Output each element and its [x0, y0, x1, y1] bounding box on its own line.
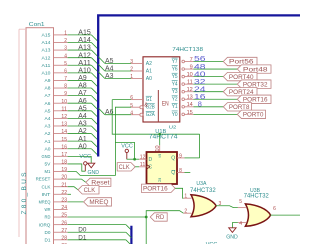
- global label PORT16 (to U3A): [142, 184, 176, 192]
- svg-text:PORT0: PORT0: [243, 113, 264, 119]
- svg-text:28: 28: [61, 235, 67, 241]
- U1B internal labels: [147, 155, 176, 183]
- svg-text:A15: A15: [42, 33, 51, 38]
- wire G1/Q rail with preset tap: [112, 100, 199, 158]
- svg-text:A0: A0: [146, 76, 152, 82]
- Con1 pin 29 (D2): [45, 243, 68, 244]
- U2 pin 10 output Y5: [172, 72, 194, 80]
- svg-text:15: 15: [187, 110, 193, 116]
- svg-text:A1: A1: [146, 69, 152, 75]
- wire PORT8 net 8: [194, 100, 224, 109]
- power symbol VCC (connector): [79, 154, 91, 171]
- U3A pin 3 output wire: [216, 201, 238, 207]
- svg-text:6: 6: [130, 95, 133, 101]
- svg-text:13: 13: [61, 122, 67, 128]
- svg-text:14: 14: [187, 102, 193, 108]
- wire A5 with net label and bus entry: [68, 103, 99, 117]
- Con1 pin 6 (A10): [42, 68, 68, 75]
- bus data vertical bottom: [130, 226, 132, 244]
- ground symbol GND (U3B): [226, 228, 238, 241]
- wire A4 with net label and bus entry: [68, 111, 99, 125]
- U2 pin 7 output Y7: [172, 57, 194, 65]
- svg-text:5V: 5V: [45, 162, 52, 167]
- svg-text:4: 4: [64, 53, 67, 59]
- svg-text:A7: A7: [45, 93, 51, 98]
- svg-text:74HCT32: 74HCT32: [190, 187, 216, 194]
- svg-text:12: 12: [187, 87, 193, 93]
- svg-text:15: 15: [61, 137, 67, 143]
- wire PORT40 net 40: [194, 69, 224, 78]
- U1B pin 9 Q output: [177, 153, 185, 159]
- svg-text:WR: WR: [45, 207, 51, 212]
- svg-text:6: 6: [64, 68, 67, 74]
- wire RESET to Reset label: [68, 179, 86, 182]
- svg-text:1: 1: [64, 31, 67, 37]
- U2 pin 11 output Y4: [172, 80, 194, 88]
- svg-text:12: 12: [61, 114, 67, 120]
- svg-text:2: 2: [130, 67, 133, 73]
- svg-text:2: 2: [184, 209, 187, 215]
- svg-text:16: 16: [61, 144, 67, 150]
- U2 pin 5 input G2B (inverted): [130, 103, 155, 111]
- global label Port56: [223, 57, 257, 65]
- svg-text:11: 11: [61, 106, 67, 112]
- svg-text:3: 3: [130, 59, 133, 65]
- Con1 pin 14 (A2): [45, 129, 68, 136]
- Con1 pin 21 (CLK): [42, 182, 68, 189]
- svg-text:Y0: Y0: [172, 112, 178, 118]
- Con1 pin 9 (A7): [45, 91, 68, 98]
- svg-text:MREQ: MREQ: [39, 199, 51, 204]
- svg-text:GND: GND: [226, 235, 238, 241]
- Con1 pin 4 (A12): [42, 53, 68, 60]
- svg-text:D: D: [149, 157, 153, 163]
- svg-text:7: 7: [64, 76, 67, 82]
- junction RD node: [145, 216, 148, 219]
- global label PORT16: [237, 95, 271, 103]
- svg-text:A11: A11: [42, 63, 51, 68]
- svg-text:8: 8: [198, 100, 202, 109]
- svg-text:Q: Q: [171, 170, 175, 176]
- global label CLK (connector): [78, 186, 99, 194]
- svg-text:Y3: Y3: [172, 89, 178, 95]
- svg-text:A1: A1: [45, 139, 51, 144]
- Con1 pin 2 (A14): [42, 38, 68, 45]
- Con1 pin 28 (D1): [45, 235, 68, 242]
- U1B pin 12 D input: [139, 155, 147, 161]
- Con1 pin 3 (A13): [42, 46, 68, 53]
- wire RD up to OR gate U3A pin2: [146, 211, 183, 217]
- wire G2B branch to VCC/D node: [115, 143, 134, 160]
- svg-text:A2: A2: [146, 61, 152, 67]
- svg-text:8: 8: [179, 168, 182, 174]
- Con1 pin 18 (5V): [45, 160, 68, 167]
- wire A0 with net label and bus entry: [68, 141, 99, 155]
- wire A2 with net label and bus entry: [68, 126, 99, 140]
- svg-text:Y5: Y5: [172, 74, 178, 80]
- svg-text:D0: D0: [78, 228, 87, 234]
- U2 pin 15 output Y0: [172, 110, 194, 118]
- wire VCC to D junction: [127, 158, 139, 160]
- U3B pin 5 input: [238, 199, 246, 208]
- svg-text:20: 20: [61, 175, 67, 181]
- svg-text:GND: GND: [42, 154, 51, 159]
- svg-text:Con1: Con1: [29, 22, 45, 28]
- wire 5V pin18 to VCC symbol: [68, 164, 86, 171]
- wire PORT16 net 16: [194, 92, 238, 101]
- svg-text:Y1: Y1: [172, 104, 178, 110]
- Con1 pin 23 (MREQ): [39, 197, 68, 204]
- svg-text:6: 6: [273, 206, 276, 212]
- svg-text:2: 2: [64, 38, 67, 44]
- svg-text:A3: A3: [105, 71, 113, 80]
- svg-text:8: 8: [64, 84, 67, 90]
- svg-text:1: 1: [184, 194, 187, 200]
- Con1 pin 11 (A5): [45, 106, 68, 113]
- wire PORT16 to U3A pin1: [175, 188, 183, 198]
- Con1 pin 1 (A15): [42, 31, 68, 38]
- svg-text:19: 19: [61, 167, 67, 173]
- svg-text:A0: A0: [45, 146, 51, 151]
- svg-text:1: 1: [130, 74, 133, 80]
- svg-text:Q: Q: [171, 156, 175, 162]
- U2 74HCT138 body: [143, 47, 203, 130]
- svg-text:A5: A5: [45, 108, 51, 113]
- svg-text:A2: A2: [45, 131, 51, 136]
- svg-text:24: 24: [61, 205, 67, 211]
- svg-text:A10: A10: [42, 70, 51, 75]
- global label PORT8: [223, 103, 251, 111]
- svg-text:Y4: Y4: [172, 82, 178, 88]
- svg-text:RD: RD: [156, 215, 165, 221]
- svg-text:74HCT74: 74HCT74: [149, 135, 178, 141]
- Con1 pin 17 (GND): [42, 152, 68, 159]
- svg-text:A3: A3: [45, 124, 51, 129]
- Con1 pin 12 (A4): [45, 114, 68, 121]
- or-gate U3B 74HCT32: [244, 188, 271, 226]
- wire INT stub: [68, 193, 71, 195]
- wire PORT24 net 24: [194, 84, 224, 93]
- wire GND to U3B pin4: [232, 223, 238, 228]
- svg-text:VCC: VCC: [79, 154, 91, 160]
- U1B pin 8 Q-bar output: [177, 168, 185, 174]
- svg-text:A13: A13: [42, 48, 51, 53]
- Con1 pin 16 (A0): [45, 144, 68, 151]
- svg-text:3: 3: [219, 201, 222, 207]
- global label Port48: [237, 65, 271, 73]
- svg-text:D1: D1: [78, 235, 87, 241]
- Con1 pin 7 (A9): [45, 76, 68, 83]
- svg-text:21: 21: [61, 182, 67, 188]
- wire A3 from bus to U2 A0: [98, 71, 131, 80]
- svg-text:11: 11: [140, 162, 146, 168]
- wire Port56 net 56: [194, 54, 224, 63]
- Con1 pin 27 (D0): [45, 228, 68, 235]
- connector Con1 body: [19, 22, 54, 244]
- global label PORT24: [223, 88, 257, 96]
- svg-text:26: 26: [61, 220, 67, 226]
- or-gate U3A 74HCT32: [190, 181, 216, 217]
- wire A12 with net label and bus entry: [68, 50, 99, 64]
- global label RD: [150, 213, 167, 221]
- U2 pin 13 output Y2: [172, 95, 194, 103]
- Con1 pin 8 (A8): [45, 84, 68, 91]
- bus name Z80_BUS: [21, 172, 28, 215]
- svg-text:22: 22: [61, 190, 67, 196]
- svg-text:IORQ: IORQ: [39, 222, 51, 227]
- junction D node: [133, 158, 136, 161]
- wire RD down to sheet edge: [145, 217, 147, 244]
- svg-text:S: S: [158, 155, 161, 159]
- svg-text:Y7: Y7: [172, 59, 178, 65]
- wire A6 from bus to U2 G2A: [98, 107, 131, 116]
- wire A14 with net label and bus entry: [68, 35, 99, 49]
- svg-text:5: 5: [130, 103, 133, 109]
- svg-text:INT: INT: [42, 192, 51, 197]
- wire RD horizontal: [68, 216, 147, 218]
- svg-text:&: &: [144, 102, 148, 108]
- wire A10 with net label and bus entry: [68, 65, 99, 79]
- wire GND pin17 to ground symbol: [68, 156, 92, 163]
- wire A1 with net label and bus entry: [68, 134, 99, 148]
- svg-text:7: 7: [190, 57, 193, 63]
- wire A8 with net label and bus entry: [68, 81, 99, 95]
- svg-text:D0: D0: [45, 230, 51, 235]
- wire A15 with net label and bus entry: [68, 28, 99, 42]
- bus Z80_BUS vertical+top: [98, 15, 300, 156]
- svg-text:13: 13: [187, 95, 193, 101]
- U2 pin 12 output Y3: [172, 87, 194, 95]
- svg-text:4: 4: [130, 110, 133, 116]
- Con1 pin 13 (A3): [45, 122, 68, 129]
- global label PORT40: [223, 72, 257, 80]
- svg-text:74HCT138: 74HCT138: [172, 47, 203, 53]
- svg-text:D1: D1: [45, 237, 51, 242]
- svg-text:A12: A12: [42, 55, 51, 60]
- svg-text:CLK: CLK: [119, 165, 130, 171]
- svg-text:VCC: VCC: [121, 144, 133, 150]
- wire M1 to 74HCT138 G2B: [68, 107, 131, 175]
- svg-text:18: 18: [61, 160, 67, 166]
- wire Port48 net 48: [194, 62, 238, 71]
- wire A4 from bus to U2 A1: [98, 64, 131, 73]
- U1B pin 11 clock input: [139, 162, 147, 168]
- svg-text:27: 27: [61, 228, 67, 234]
- U3B pin 4 input: [238, 221, 246, 227]
- wire G1 from Q rail: [112, 99, 131, 101]
- U2 pin 2 input A1: [130, 67, 152, 75]
- power label VCC (clipped bottom): [206, 242, 218, 244]
- U2 pin 3 input A2: [130, 59, 152, 67]
- wire A11 with net label and bus entry: [68, 58, 99, 72]
- wire D1 with net label and bus entry: [68, 235, 132, 244]
- svg-text:G2A: G2A: [146, 112, 156, 118]
- svg-text:Y6: Y6: [172, 66, 178, 72]
- wire MREQ to MREQ label: [68, 201, 84, 203]
- global label MREQ: [84, 198, 112, 206]
- global label PORT32: [237, 80, 271, 88]
- U1B 74HCT74 body: [147, 129, 179, 184]
- global label CLK (U1B clock): [117, 163, 135, 171]
- svg-text:U2: U2: [169, 125, 177, 131]
- U2 pin 1 input A0: [130, 74, 152, 82]
- Con1 pin 22 (INT): [42, 190, 68, 197]
- svg-text:9: 9: [179, 153, 182, 159]
- wire CLK to CLK label: [68, 187, 78, 190]
- wire A13 with net label and bus entry: [68, 43, 99, 57]
- svg-text:10: 10: [187, 72, 193, 78]
- svg-text:10: 10: [61, 99, 67, 105]
- Con1 pin 20 (RESET): [36, 175, 68, 182]
- wire Q to rail: [185, 157, 200, 159]
- svg-text:5: 5: [239, 199, 242, 205]
- wire PORT0 net: [194, 113, 238, 115]
- U1B pin 10 preset stub: [155, 145, 161, 152]
- Con1 pin 15 (A1): [45, 137, 68, 144]
- ground symbol GND (connector): [87, 163, 99, 176]
- power symbol VCC (U1B D input): [121, 144, 133, 160]
- svg-text:M1: M1: [45, 169, 51, 174]
- U2 EN group marks: [144, 90, 168, 121]
- global label Reset: [86, 178, 111, 187]
- wire A9 with net label and bus entry: [68, 73, 99, 87]
- svg-text:9: 9: [190, 64, 193, 70]
- wire PORT32 net 32: [194, 77, 238, 86]
- wire A3 with net label and bus entry: [68, 119, 99, 133]
- U2 pin 4 input G2A (inverted): [130, 110, 155, 118]
- svg-text:23: 23: [61, 197, 67, 203]
- svg-text:17: 17: [61, 152, 67, 158]
- U3A pin 1 input: [183, 194, 191, 200]
- svg-text:A9: A9: [45, 78, 51, 83]
- wire D0 with net label and bus entry: [68, 228, 132, 238]
- svg-text:MREQ: MREQ: [89, 200, 108, 206]
- svg-text:74HCT32: 74HCT32: [244, 193, 269, 200]
- wire Q-bar stub: [185, 172, 191, 174]
- svg-text:PORT16: PORT16: [143, 187, 168, 193]
- U2 pin 14 output Y1: [172, 102, 194, 110]
- svg-text:RD: RD: [45, 215, 51, 220]
- svg-text:25: 25: [61, 213, 67, 219]
- Con1 pin 19 (M1): [45, 167, 68, 174]
- global label PORT0: [237, 110, 265, 118]
- svg-text:3: 3: [64, 46, 67, 52]
- svg-text:5: 5: [64, 61, 67, 67]
- wire A5 from bus to U2 A2: [98, 56, 131, 65]
- svg-text:A14: A14: [42, 40, 51, 45]
- svg-text:A8: A8: [45, 86, 51, 91]
- svg-text:4: 4: [239, 221, 242, 227]
- svg-text:RESET: RESET: [36, 177, 51, 182]
- U3B pin 6 output wire: [270, 206, 300, 215]
- wire IORQ: [68, 225, 132, 231]
- svg-text:10: 10: [155, 145, 161, 152]
- U3A pin 2 input: [183, 209, 191, 215]
- svg-text:A4: A4: [45, 116, 51, 121]
- svg-text:A6: A6: [45, 101, 51, 106]
- Con1 pin 24 (WR): [45, 205, 68, 212]
- svg-text:CLK: CLK: [84, 188, 96, 194]
- Con1 pin 25 (RD): [45, 213, 68, 220]
- Con1 pin 26 (IORQ): [39, 220, 68, 227]
- svg-text:12: 12: [140, 155, 146, 161]
- wire CLK to C pin: [135, 166, 139, 168]
- wire A6 with net label and bus entry: [68, 96, 99, 110]
- svg-text:CLK: CLK: [42, 184, 52, 189]
- wire A7 with net label and bus entry: [68, 88, 99, 102]
- svg-text:9: 9: [64, 91, 67, 97]
- U2 pin 6 input G1: [130, 95, 152, 103]
- svg-text:14: 14: [61, 129, 67, 135]
- svg-text:A0: A0: [78, 141, 86, 150]
- Con1 pin 10 (A6): [45, 99, 68, 106]
- svg-text:11: 11: [187, 80, 193, 86]
- svg-text:EN: EN: [162, 101, 169, 108]
- svg-text:Y2: Y2: [172, 97, 178, 103]
- svg-text:R: R: [158, 179, 161, 183]
- U2 pin 9 output Y6: [172, 64, 194, 72]
- Con1 pin 5 (A11): [42, 61, 68, 68]
